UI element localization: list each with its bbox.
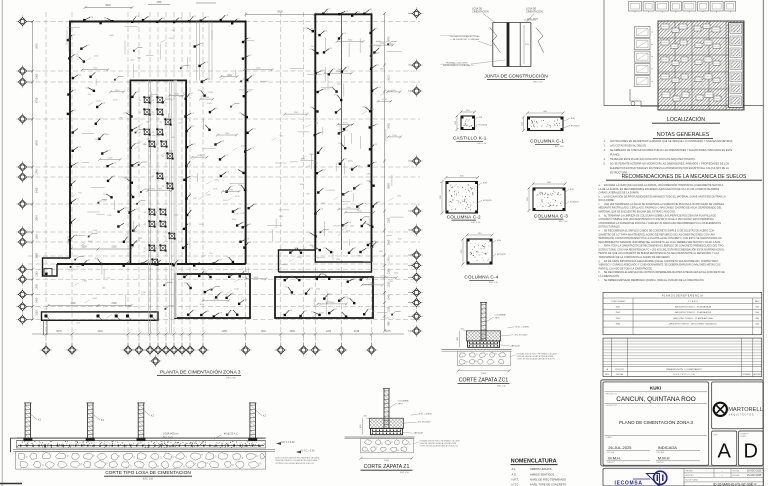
svg-text:NOMENCLATURA: NOMENCLATURA — [511, 458, 557, 464]
svg-text:ACOTACIONES EN MILIMETROS (A M: ACOTACIONES EN MILIMETROS (A MENOS QUE S… — [610, 140, 733, 143]
zapata rubble — [458, 351, 511, 365]
svg-text:REV: REV — [755, 301, 760, 303]
svg-text:FECHA: FECHA — [616, 373, 623, 376]
svg-text:LAS COTAS RIGEN AL DIBUJO.: LAS COTAS RIGEN AL DIBUJO. — [610, 144, 647, 147]
svg-text:e.: e. — [599, 230, 601, 233]
svg-text:3575: 3575 — [36, 43, 39, 49]
svg-text:VIBRADO Y CURADO ADECUADO Y CU: VIBRADO Y CURADO ADECUADO Y CUIDADOSAMEN… — [599, 264, 721, 267]
bottom rectangle foundation R1 — [175, 274, 250, 318]
bottom-left long grade beam — [42, 312, 159, 320]
junta slab edges — [492, 23, 494, 67]
svg-text:4750: 4750 — [36, 97, 39, 103]
svg-text:a.: a. — [599, 184, 601, 187]
svg-text:NA: NA — [756, 306, 760, 309]
svg-text:NA: NA — [756, 323, 760, 326]
svg-text:AMBOS LECHOS: AMBOS LECHOS — [530, 467, 552, 471]
svg-text:5975: 5975 — [388, 36, 391, 42]
top dimension marks — [84, 1, 317, 16]
column symbols on main right wall — [238, 38, 258, 249]
svg-text:1745: 1745 — [36, 169, 39, 175]
svg-text:#3 @ 25 A.L.: #3 @ 25 A.L. — [224, 433, 238, 436]
svg-text:2130: 2130 — [111, 303, 117, 305]
svg-text:COLUMNA C-4: COLUMNA C-4 — [464, 275, 498, 280]
approval sub-table — [684, 468, 763, 486]
svg-text:K1: K1 — [147, 262, 149, 264]
svg-text:CRITERIO DE LA MECÁNICA DE SUE: CRITERIO DE LA MECÁNICA DE SUELOS — [275, 462, 314, 465]
section CORTE TIPO LOSA DE CIMENTACION — [11, 438, 276, 469]
leader hook marks in plan — [70, 41, 401, 315]
zapata column ladder — [383, 389, 385, 429]
svg-text:25-AGO-2025: 25-AGO-2025 — [747, 474, 762, 477]
svg-text:2130: 2130 — [111, 247, 117, 249]
svg-text:ARQUITECTONICO - SECCIONES Y A: ARQUITECTONICO - SECCIONES Y ALZADOS — [669, 323, 717, 326]
svg-text:K1: K1 — [155, 212, 157, 214]
svg-text:2440: 2440 — [388, 239, 391, 245]
losa section title — [104, 470, 192, 480]
svg-text:K1: K1 — [139, 132, 141, 134]
svg-text:NA: NA — [756, 317, 760, 320]
revision table — [603, 338, 762, 377]
svg-text:4.: 4. — [604, 158, 606, 161]
svg-text:PLANTA DE CIMENTACIÓN ZONA 3: PLANTA DE CIMENTACIÓN ZONA 3 — [160, 369, 241, 376]
svg-text:3.: 3. — [604, 149, 606, 152]
svg-text:No DE PLANO: No DE PLANO — [686, 479, 699, 482]
svg-text:1386: 1386 — [156, 1, 162, 4]
svg-text:1000: 1000 — [481, 373, 487, 375]
svg-text:PLANO DE CIMENTACIÓN ZONA 3: PLANO DE CIMENTACIÓN ZONA 3 — [619, 419, 693, 425]
bottom horizontal dimension chain — [32, 330, 404, 335]
bottom rectangle foundation R2 — [275, 277, 373, 318]
svg-text:PARA EL COLADO DE TODA LA CIME: PARA EL COLADO DE TODA LA CIMENTACIÓN. — [599, 267, 653, 270]
svg-text:1060: 1060 — [36, 73, 39, 79]
losa section annotations — [163, 433, 320, 466]
svg-text:INDICADA: INDICADA — [658, 445, 677, 450]
svg-text:26-JUL-2025: 26-JUL-2025 — [608, 445, 632, 450]
bottom grid bubbles (diamond markers) — [40, 336, 378, 368]
svg-text:K1: K1 — [144, 212, 146, 214]
left notch foundation outline — [43, 258, 71, 276]
right wing foundation rectangle — [315, 14, 371, 262]
svg-text:+/- AL REINFORT O SIMILAR: +/- AL REINFORT O SIMILAR — [450, 38, 479, 41]
column symbols R1 top — [183, 271, 248, 278]
grade beam left drop lines — [43, 320, 45, 335]
svg-text:1730: 1730 — [388, 306, 391, 312]
rebar ladder columns in losa section — [23, 403, 266, 441]
svg-text:RECUBRIMIENTO INFERIOR UNIFORM: RECUBRIMIENTO INFERIOR UNIFORME DEL CONC… — [599, 241, 722, 244]
svg-text:NIVEL TOPE DE CONCRETO: NIVEL TOPE DE CONCRETO — [530, 483, 566, 486]
svg-text:N.P.T.: N.P.T. — [512, 477, 519, 481]
svg-text:6075: 6075 — [56, 330, 62, 333]
svg-text:K1: K1 — [144, 248, 146, 250]
svg-text:VEGETAL INERTE LLEGAR A PIEDRA: VEGETAL INERTE LLEGAR A PIEDRA FINA AL — [275, 459, 319, 462]
svg-text:ARQUITECTONICO - PLANTA AZOTEA: ARQUITECTONICO - PLANTA AZOTEA — [673, 317, 713, 320]
svg-text:DIBUJO: DIBUJO — [607, 462, 615, 464]
svg-text:N.P.T. ± 0.00: N.P.T. ± 0.00 — [281, 441, 295, 444]
localizacion access path — [630, 89, 659, 107]
plan row grid lines (dashed horizontal) — [28, 22, 420, 320]
svg-text:4#5, E#2@20: 4#5, E#2@20 — [418, 422, 432, 424]
svg-text:IN02: IN02 — [616, 312, 621, 314]
svg-text:ESC 1:10: ESC 1:10 — [533, 82, 543, 84]
column symbols on right-wing left wall — [304, 28, 327, 238]
svg-text:ESC 1:10: ESC 1:10 — [400, 472, 409, 474]
svg-text:ESTRUCTURALES.: ESTRUCTURALES. — [599, 226, 621, 229]
castillo symbols in courtyard — [139, 96, 176, 265]
sheet right border — [762, 0, 764, 486]
dimension line above grade beam — [44, 303, 132, 324]
svg-text:K1: K1 — [152, 100, 154, 102]
svg-text:K1: K1 — [152, 132, 154, 134]
junta break lines — [490, 27, 501, 52]
svg-text:3450: 3450 — [388, 123, 391, 129]
svg-text:IN03: IN03 — [616, 318, 621, 320]
svg-text:CORTE ZAPATA Z1: CORTE ZAPATA Z1 — [364, 464, 410, 470]
svg-text:1210: 1210 — [97, 330, 103, 333]
svg-text:RECOMENDACIONES DE LA MECANICA: RECOMENDACIONES DE LA MECANICA DE SUELOS — [622, 174, 747, 180]
svg-text:P L A N O: P L A N O — [688, 300, 698, 303]
svg-text:LA DE LA ZAPATA, ES RECOMENDAB: LA DE LA ZAPATA, ES RECOMENDABLE EXCEDER… — [599, 188, 720, 191]
plan column grid lines (dashed vertical) — [46, 12, 372, 346]
column symbols R1 bottom — [187, 310, 239, 318]
grade beam anchor dots — [45, 315, 157, 322]
svg-text:N.S.L o N.M.E.: N.S.L o N.M.E. — [419, 414, 433, 416]
svg-text:A.S.: A.S. — [512, 472, 517, 476]
svg-text:PLEMKA o CELOTEX: PLEMKA o CELOTEX — [446, 61, 468, 64]
svg-text:CIMENTACIÓN: CIMENTACIÓN — [526, 11, 543, 14]
svg-text:PLANO: PLANO — [606, 436, 613, 439]
column symbols R2 interior — [285, 287, 355, 305]
svg-text:ELEMENTOS ESTRUCTURALES SIN PR: ELEMENTOS ESTRUCTURALES SIN PREVIA AUTOR… — [610, 167, 729, 170]
svg-text:1340: 1340 — [388, 294, 391, 300]
svg-text:2398: 2398 — [388, 268, 391, 274]
detail CASTILLO K-1 — [453, 110, 488, 145]
right panel LOCALIZACION box — [604, 0, 763, 106]
revision letter box A — [712, 431, 737, 465]
svg-text:d.: d. — [599, 214, 601, 217]
svg-text:NO SE PERMITE ALTERAR NO MODIF: NO SE PERMITE ALTERAR NO MODIFICAR LAS D… — [610, 162, 729, 165]
zapata dado hatch — [370, 418, 404, 428]
column symbols on left wall — [67, 35, 83, 242]
castillo symbols lower cluster — [139, 128, 174, 159]
svg-text:1.: 1. — [604, 140, 606, 143]
zapata ground lines — [442, 349, 512, 351]
svg-text:c.: c. — [599, 203, 601, 206]
svg-text:1480: 1480 — [36, 297, 39, 303]
svg-text:ARQUITECTOS: ARQUITECTOS — [729, 413, 755, 416]
svg-text:4#5, E#2@20: 4#5, E#2@20 — [515, 334, 529, 336]
svg-text:N.T.C.: N.T.C. — [512, 483, 520, 486]
svg-text:3480: 3480 — [36, 252, 39, 258]
svg-text:DIAMETRO DE 1/2" PARA MANTENER: DIAMETRO DE 1/2" PARA MANTENER EL ACERO … — [599, 233, 716, 236]
detail COLUMNA C-1 — [521, 111, 580, 148]
svg-text:ES DE GRAN IMPORTANCIA ASEGURA: ES DE GRAN IMPORTANCIA ASEGURARSE QUE EL… — [604, 260, 719, 263]
svg-text:2.: 2. — [604, 144, 606, 147]
svg-text:UBICACIÓN: UBICACIÓN — [606, 404, 618, 407]
scattered dimension labels in plan — [68, 29, 402, 320]
column symbols on right-wing right wall — [362, 28, 381, 248]
svg-text:K1: K1 — [156, 144, 158, 146]
svg-text:ESC 1:10: ESC 1:10 — [472, 222, 481, 224]
detail COLUMNA C-2 — [440, 175, 493, 224]
svg-text:E#2@25: E#2@25 — [497, 254, 506, 256]
small dimension tick lines in plan — [67, 27, 404, 316]
svg-text:A: A — [718, 441, 732, 463]
svg-text:CORTE ZAPATA ZC1: CORTE ZAPATA ZC1 — [459, 378, 509, 384]
svg-text:FECHA: FECHA — [733, 469, 740, 472]
svg-text:1210: 1210 — [261, 330, 267, 333]
svg-text:SEPARACIÓN CONSTANTE RESPECTO: SEPARACIÓN CONSTANTE RESPECTO A LA PLANT… — [599, 237, 722, 240]
svg-text:E#3@25: E#3@25 — [571, 125, 580, 127]
interior dimension line above bottom wall — [70, 247, 133, 251]
svg-text:CONCRETO SIMPLE CON UNA RESIST: CONCRETO SIMPLE CON UNA RESISTENCIA F'C … — [599, 218, 714, 221]
svg-text:ID-26-MAR-KI-PG-NT-004: ID-26-MAR-KI-PG-NT-004 — [713, 482, 753, 486]
svg-text:1200: 1200 — [326, 330, 332, 333]
svg-text:UNA VEZ TERMINADA LA ZANJA SE: UNA VEZ TERMINADA LA ZANJA SE SOMETERA L… — [604, 203, 724, 206]
svg-text:COMO SE INDICA LA MECÁNICA DE: COMO SE INDICA LA MECÁNICA DE SUELOS — [517, 357, 556, 360]
svg-text:ACI. T=25: ACI. T=25 — [163, 435, 174, 438]
localizacion site map - top row blocks — [629, 2, 736, 13]
column symbols on courtyard left wall — [123, 91, 141, 246]
svg-text:RECIBIO: RECIBIO — [686, 470, 694, 472]
svg-text:3460: 3460 — [36, 187, 39, 193]
svg-text:NOTAS GENERALES: NOTAS GENERALES — [657, 132, 710, 138]
left grid bubbles (diamond markers) — [16, 15, 33, 326]
svg-text:AMBOS SENTIDOS: AMBOS SENTIDOS — [530, 472, 554, 476]
svg-text:MATERIAL QUE SE ENCUENTRE ENCI: MATERIAL QUE SE ENCUENTRE ENCIMA DEL EST… — [599, 211, 676, 214]
notch interior box — [44, 269, 52, 277]
PLANOS DE REFERENCIA table — [603, 292, 762, 334]
svg-text:K1: K1 — [139, 112, 141, 114]
svg-text:CIMENTACIÓN: CIMENTACIÓN — [472, 11, 489, 14]
LOCALIZACION title — [652, 116, 720, 123]
svg-text:E#3@25: E#3@25 — [483, 200, 492, 202]
svg-text:29-01-25: 29-01-25 — [615, 369, 625, 371]
svg-text:CANCUN, QUINTANA ROO: CANCUN, QUINTANA ROO — [616, 396, 695, 403]
svg-text:5850: 5850 — [388, 183, 391, 189]
right wing middle wall — [341, 14, 343, 250]
zapata rubble — [361, 439, 414, 453]
svg-text:K1: K1 — [144, 224, 146, 226]
column symbols in band — [289, 246, 369, 254]
zapata dado hatch — [467, 331, 501, 341]
localizacion right building strip — [729, 23, 744, 108]
svg-text:PARA TODA LA CIMENTACIÓN SE RE: PARA TODA LA CIMENTACIÓN SE RECOMIENDA E… — [604, 245, 724, 248]
localizacion site map - main hatched block — [658, 21, 744, 110]
svg-text:D E S C R I P C I O N: D E S C R I P C I O N — [673, 374, 695, 376]
svg-text:TIPO: TIPO — [495, 317, 500, 319]
svg-text:1745: 1745 — [388, 257, 391, 263]
detail CORTE ZAPATA Z1 — [345, 389, 461, 475]
svg-text:ESC 1:10: ESC 1:10 — [555, 146, 564, 148]
rubble fill under slab — [16, 452, 266, 470]
svg-text:3920: 3920 — [105, 4, 111, 7]
svg-text:SUSTITUCIÓN SEGÚN RECOMIENDE L: SUSTITUCIÓN SEGÚN RECOMIENDE LA CAPA — [275, 456, 320, 459]
svg-text:LA EXCAVACIÓN DE PROFUNDIDADES: LA EXCAVACIÓN DE PROFUNDIDADES ELIMINAND… — [604, 195, 726, 198]
slab bottom plantilla lines — [13, 449, 275, 451]
svg-text:COLUMNA C-1: COLUMNA C-1 — [530, 139, 564, 144]
svg-text:COLUMNA: COLUMNA — [398, 400, 409, 403]
svg-text:CASTILLO K-1: CASTILLO K-1 — [453, 136, 487, 141]
svg-text:LOCALIZACIÓN: LOCALIZACIÓN — [667, 116, 705, 123]
main building foundation outline — [70, 22, 246, 265]
joint filler bar — [507, 23, 510, 67]
svg-text:REVISO: REVISO — [657, 462, 665, 464]
slab rebar line with dots — [18, 445, 264, 447]
svg-text:6900: 6900 — [277, 11, 283, 14]
svg-text:K1: K1 — [152, 112, 154, 114]
svg-text:APROBO: APROBO — [753, 373, 761, 376]
plan title PLANTA DE CIMENTACION ZONA 3 — [157, 369, 241, 380]
column symbols mid wing interior — [194, 43, 251, 243]
svg-text:TRANSMISION DE LA CORROSION AL: TRANSMISION DE LA CORROSION AL ACERO DE … — [599, 256, 671, 259]
slab left edge drop — [11, 438, 17, 452]
column symbols on right-wing top wall — [322, 8, 373, 16]
svg-text:NOMBRE: NOMBRE — [743, 374, 752, 376]
svg-text:EXCAVAR LA CEPA QUE ALOJARA LA: EXCAVAR LA CEPA QUE ALOJARA LA ZAPATA, U… — [604, 184, 724, 187]
svg-text:1060: 1060 — [36, 234, 39, 240]
svg-text:PLANO).: PLANO). — [610, 153, 620, 156]
architect logo box MARTORELL — [712, 382, 763, 429]
svg-text:UNIFORMIZAR LA SUPERFICIE ROCO: UNIFORMIZAR LA SUPERFICIE ROCOSA Y DARLE… — [599, 222, 722, 225]
sheet bottom-left corner tick — [0, 483, 22, 485]
svg-text:h.: h. — [599, 271, 601, 274]
svg-text:3000: 3000 — [70, 303, 76, 305]
svg-text:M.M.H: M.M.H — [658, 455, 670, 460]
svg-text:K1: K1 — [155, 224, 157, 226]
svg-text:IECOMSA: IECOMSA — [615, 481, 643, 486]
svg-text:ESC 1:50: ESC 1:50 — [226, 377, 236, 379]
svg-text:K1: K1 — [162, 156, 164, 158]
svg-text:ESC 1:10: ESC 1:10 — [489, 282, 498, 284]
svg-text:N.S.L o N.M.E.: N.S.L o N.M.E. — [516, 326, 530, 328]
column symbols on top wall — [83, 15, 241, 25]
svg-text:NIVEL DE PISO TERMINADO: NIVEL DE PISO TERMINADO — [530, 477, 566, 481]
svg-text:ZAP. A-08: ZAP. A-08 — [511, 344, 521, 347]
svg-text:K1: K1 — [139, 100, 141, 102]
svg-text:g.: g. — [599, 260, 601, 263]
column symbols on right-wing middle wall — [335, 33, 353, 227]
plan number box D — [739, 431, 764, 465]
courtyard inner foundation rectangle — [130, 80, 186, 264]
zapata footing with rebar — [468, 341, 500, 347]
svg-text:CORTE TIPO LOSA DE CIMENTACION: CORTE TIPO LOSA DE CIMENTACION — [105, 470, 191, 476]
svg-text:COMO SE INDICA LA MECÁNICA DE: COMO SE INDICA LA MECÁNICA DE SUELOS — [420, 445, 459, 448]
notas generales list — [604, 140, 734, 175]
svg-text:ARQUITECTONICO - PLANTA BAJA: ARQUITECTONICO - PLANTA BAJA — [675, 306, 712, 309]
NOMENCLATURA legend — [511, 458, 567, 486]
svg-text:1350: 1350 — [388, 217, 391, 223]
svg-text:PLANO: PLANO — [740, 435, 747, 438]
svg-text:COLUMNA C-2: COLUMNA C-2 — [447, 214, 481, 219]
svg-text:COLUMNA: COLUMNA — [495, 314, 506, 317]
detail CORTE ZAPATA ZC1 — [442, 303, 558, 388]
slab top lines — [16, 437, 265, 439]
slab body with aggregate speckle — [16, 441, 265, 448]
svg-text:K1: K1 — [152, 176, 154, 178]
svg-text:MEDIANTE RASTRILLADO, CEPILLAD: MEDIANTE RASTRILLADO, CEPILLADO, RASPADO… — [599, 207, 723, 210]
svg-text:ESTRUCTURAL CON UNA RESISTENCI: ESTRUCTURAL CON UNA RESISTENCIA F'C = 25… — [599, 248, 726, 251]
detail COLUMNA C-3 — [527, 182, 580, 223]
zapata dimensions — [459, 331, 461, 348]
main building bottom edge wall — [57, 263, 246, 265]
svg-text:JUNTA DE CONSTRUCCIÓN: JUNTA DE CONSTRUCCIÓN — [484, 73, 548, 80]
svg-text:ESCALA: ESCALA — [657, 451, 666, 454]
short dimension lines with end ticks in plan — [81, 40, 402, 306]
zapata dimensions — [362, 418, 364, 435]
svg-text:PARA REVISIÓN Y COMENTARIOS: PARA REVISIÓN Y COMENTARIOS — [666, 368, 702, 371]
zapata ground lines — [345, 436, 415, 438]
svg-text:26-AGO-2025: 26-AGO-2025 — [747, 470, 762, 473]
svg-text:ROCA FIRME.: ROCA FIRME. — [599, 199, 615, 202]
svg-text:K1: K1 — [164, 236, 166, 238]
svg-text:ESC 1:10: ESC 1:10 — [497, 386, 506, 388]
title block outer frame — [601, 380, 764, 466]
svg-text:TRABAJAR ESTE PLANO EN CONJUNT: TRABAJAR ESTE PLANO EN CONJUNTO CON LOS … — [610, 158, 696, 161]
svg-text:SE RECOMIENDA EL EMPLEO DE ADI: SE RECOMIENDA EL EMPLEO DE ADITIVOS IMPE… — [604, 271, 725, 274]
svg-text:ESC 1:10: ESC 1:10 — [478, 143, 487, 145]
svg-text:FECHA: FECHA — [733, 474, 740, 477]
column symbols R1 interior — [184, 282, 248, 305]
svg-text:1900: 1900 — [36, 283, 39, 289]
svg-text:E#2@20: E#2@20 — [479, 124, 488, 126]
svg-text:ESC 1:10: ESC 1:10 — [559, 221, 568, 223]
martorell circle-X logo — [714, 403, 727, 416]
detail JUNTA DE CONSTRUCCION — [440, 8, 548, 84]
svg-text:2615: 2615 — [388, 75, 391, 81]
contractor strip IECOMSA — [603, 468, 763, 486]
svg-text:FECHA: FECHA — [607, 451, 614, 454]
svg-text:2938: 2938 — [354, 330, 360, 333]
svg-text:K1: K1 — [162, 186, 164, 188]
NOTAS GENERALES heading — [653, 132, 713, 138]
construction joint line cluster (courtyard) — [148, 80, 150, 334]
column symbols left wing interior — [76, 45, 131, 243]
joint lines upper extension — [196, 22, 198, 81]
svg-text:3000: 3000 — [81, 247, 87, 249]
column symbols R2 bottom — [284, 309, 372, 318]
svg-text:LOSA t=25 cm: LOSA t=25 cm — [163, 433, 178, 436]
svg-text:P L A N O S D E R E F E R: P L A N O S D E R E F E R E N C I A — [662, 295, 703, 298]
localizacion interior room rectangles — [661, 24, 669, 29]
svg-text:3200: 3200 — [290, 330, 296, 333]
title block project info box — [603, 382, 709, 465]
svg-text:A.L.: A.L. — [512, 467, 517, 471]
svg-text:1650: 1650 — [36, 310, 39, 316]
svg-text:5950: 5950 — [36, 140, 39, 146]
left vertical dimension chain — [31, 20, 39, 321]
svg-text:IN04: IN04 — [616, 324, 621, 326]
RECOMENDACIONES heading — [606, 174, 762, 180]
svg-text:K1: K1 — [155, 248, 157, 250]
svg-text:D: D — [743, 441, 757, 463]
junta vertical dimension 225 — [523, 25, 525, 64]
svg-text:CARAS LATERALES DE LA ZAPATA.: CARAS LATERALES DE LA ZAPATA. — [599, 192, 640, 195]
svg-text:SE DEBERA EMPLEAR MEMBRANA QUI: SE DEBERA EMPLEAR MEMBRANA QUIMICA, PARA… — [604, 279, 705, 282]
svg-text:3040: 3040 — [36, 215, 39, 221]
svg-text:LA CIMENTACIÓN.: LA CIMENTACIÓN. — [599, 275, 620, 278]
svg-text:MARTORELL: MARTORELL — [728, 407, 763, 413]
svg-text:SE RECOMIENDA EL EMPLEO CUBOS: SE RECOMIENDA EL EMPLEO CUBOS DE CONCRET… — [604, 230, 714, 233]
column symbols right wing interior — [318, 31, 377, 247]
svg-text:IMPREGNADO CON ASFALTO: IMPREGNADO CON ASFALTO — [443, 64, 474, 67]
zapata column ladder — [480, 303, 482, 342]
svg-text:K1: K1 — [160, 122, 162, 124]
svg-text:APROBO: APROBO — [686, 474, 695, 477]
svg-text:NA: NA — [756, 311, 760, 314]
localizacion site map - left column blocks — [635, 27, 654, 87]
recomendaciones text block — [599, 184, 727, 282]
svg-text:b.: b. — [599, 195, 601, 198]
